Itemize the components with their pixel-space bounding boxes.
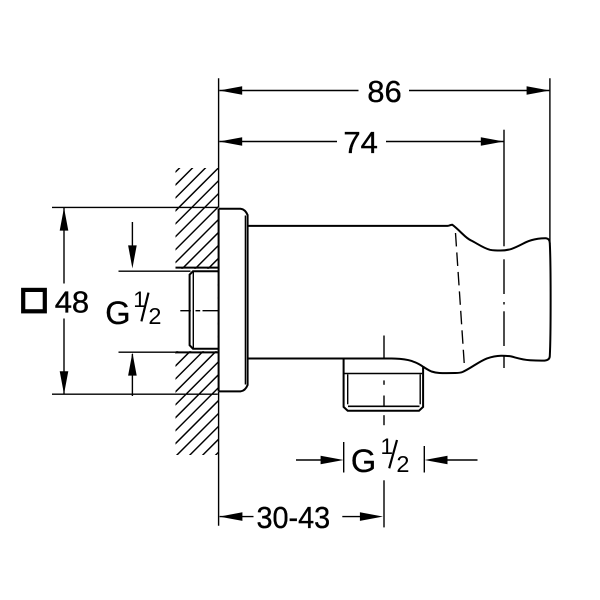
svg-text:G: G <box>351 443 376 479</box>
svg-text:2: 2 <box>148 303 161 329</box>
svg-text:2: 2 <box>396 451 409 477</box>
svg-text:48: 48 <box>55 284 89 319</box>
svg-text:1: 1 <box>381 434 394 459</box>
svg-text:74: 74 <box>343 125 377 160</box>
svg-text:30-43: 30-43 <box>257 501 331 535</box>
svg-text:86: 86 <box>367 74 401 109</box>
svg-text:G: G <box>105 295 130 331</box>
